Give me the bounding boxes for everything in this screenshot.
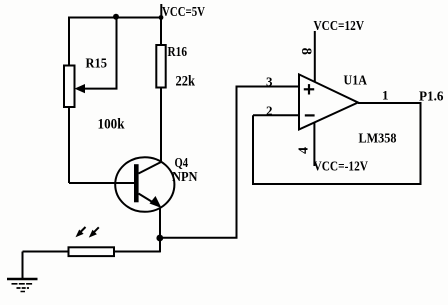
label VCC=12V — [314, 19, 365, 34]
wire wiper from junction to R15 arrow — [84, 18, 117, 89]
wire emitter node to op-amp pin3 — [160, 87, 299, 238]
power VCC=12V stub pin 8 — [314, 31, 316, 82]
label LM358 — [359, 131, 397, 146]
svg-text:NPN: NPN — [172, 170, 198, 185]
svg-text:R15: R15 — [86, 57, 108, 72]
potentiometer R15 — [64, 18, 85, 184]
svg-text:P1.6: P1.6 — [419, 89, 444, 104]
node emitter junction — [156, 235, 163, 242]
wire top rail — [68, 17, 162, 19]
power VCC=-12V stub pin 4 — [313, 122, 315, 166]
svg-text:LM358: LM358 — [359, 131, 397, 146]
label R16 — [168, 45, 188, 60]
label pin 3 — [266, 74, 273, 89]
node top junction — [113, 14, 119, 20]
svg-text:R16: R16 — [168, 45, 188, 60]
label U1A — [344, 73, 368, 88]
ground — [7, 252, 38, 292]
transistor Q4 — [115, 157, 174, 212]
wire emitter down — [159, 208, 161, 253]
svg-text:22k: 22k — [176, 73, 196, 89]
svg-text:3: 3 — [266, 74, 273, 89]
svg-text:4: 4 — [297, 147, 312, 154]
resistor R16 — [156, 18, 165, 163]
wire pin2 input — [253, 114, 299, 116]
label VCC=-12V — [314, 160, 369, 175]
label Q4 — [175, 156, 189, 171]
label 100k — [98, 116, 126, 132]
label 22k — [176, 73, 196, 89]
svg-text:8: 8 — [298, 48, 314, 55]
wire feedback loop — [253, 103, 421, 184]
label VCC=5V — [162, 5, 205, 20]
label pin 2 — [266, 103, 273, 118]
label NPN — [172, 170, 198, 185]
svg-text:VCC=12V: VCC=12V — [314, 19, 365, 34]
svg-text:VCC=-12V: VCC=-12V — [314, 160, 369, 175]
label pin 8 (rotated) — [298, 48, 314, 55]
label R15 — [86, 57, 108, 72]
label P1.6 — [419, 89, 444, 104]
light arrow right — [89, 227, 99, 237]
power VCC=5V stub — [159, 4, 164, 20]
light arrow left — [76, 227, 86, 237]
svg-text:1: 1 — [382, 88, 389, 103]
label pin 1 — [382, 88, 389, 103]
op-amp U1A — [299, 74, 358, 129]
wire base — [69, 182, 135, 184]
svg-text:U1A: U1A — [344, 73, 368, 88]
svg-text:100k: 100k — [98, 116, 126, 132]
svg-text:Q4: Q4 — [175, 156, 189, 171]
svg-text:VCC=5V: VCC=5V — [162, 5, 205, 20]
photoresistor — [23, 247, 161, 256]
label pin 4 (rotated) — [297, 147, 312, 154]
